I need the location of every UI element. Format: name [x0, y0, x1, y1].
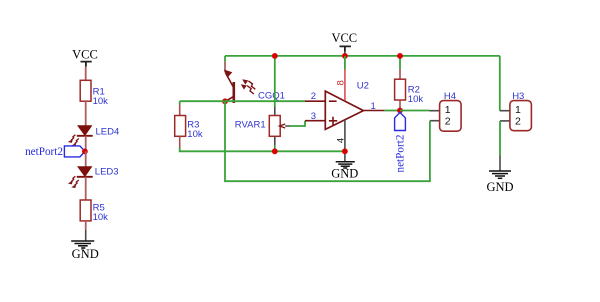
wire top rail to H3 pin1: [499, 56, 501, 111]
net port netPort2 (down): [394, 113, 406, 173]
svg-text:H4: H4: [444, 91, 456, 102]
svg-text:GND: GND: [331, 167, 358, 181]
wire RVAR1 bottom: [274, 146, 276, 152]
svg-text:2: 2: [311, 91, 316, 102]
node output junction: [397, 108, 403, 114]
resistor R1: [80, 80, 108, 107]
pin 4 ground stub: [344, 120, 346, 162]
svg-text:RVAR1: RVAR1: [235, 120, 266, 131]
node VCC junction: [342, 53, 348, 59]
wire top rail: [225, 55, 500, 57]
node emitter junction: [222, 98, 228, 104]
ground (right): [486, 156, 513, 194]
wire R3 left drop: [179, 101, 181, 104]
wire R3 to bottom-mid rail: [180, 148, 345, 152]
pin 8 power stub: [344, 56, 346, 70]
header H4: [430, 91, 462, 131]
wire LED4 to junction: [85, 136, 87, 152]
transistor CGQ1 (photo): [224, 62, 285, 104]
svg-text:CGQ1: CGQ1: [258, 90, 285, 101]
wire RVAR1 top drop: [274, 56, 276, 107]
op-amp U1 pin stubs: [305, 100, 325, 102]
svg-text:GND: GND: [72, 247, 99, 261]
node RVAR1 top junction: [272, 53, 278, 59]
op-amp U2: [311, 80, 376, 143]
svg-text:3: 3: [311, 111, 316, 122]
node junction LED4/LED3: [82, 149, 88, 155]
header H3: [500, 91, 532, 131]
potentiometer RVAR1: [235, 107, 290, 146]
VCC (left): [72, 48, 98, 67]
svg-text:10k: 10k: [93, 212, 109, 223]
wire H3 pin2 to ground: [499, 121, 501, 156]
svg-text:U2: U2: [357, 81, 369, 92]
wire pin2 net horizontal: [180, 100, 305, 102]
svg-text:VCC: VCC: [331, 31, 357, 45]
wire junction to LED3: [85, 151, 87, 167]
wire R1 to LED4: [85, 101, 87, 126]
wire output to H4 pin1: [400, 110, 430, 112]
svg-text:LED4: LED4: [96, 126, 120, 137]
node R2 top junction: [397, 53, 403, 59]
svg-text:2: 2: [445, 116, 451, 128]
net port netPort2 (left): [25, 146, 85, 158]
svg-text:2: 2: [515, 116, 521, 128]
wire VCC to R1: [85, 67, 87, 81]
svg-text:netPort2: netPort2: [25, 146, 63, 158]
ground (left): [71, 230, 99, 261]
resistor R5: [80, 200, 108, 223]
LED LED3: [68, 167, 119, 189]
node RVAR1 bottom junction: [272, 148, 278, 154]
resistor R2: [395, 69, 424, 111]
svg-text:VCC: VCC: [72, 48, 98, 62]
svg-text:10k: 10k: [93, 96, 109, 107]
wire R2 top drop: [399, 56, 401, 69]
VCC (right): [331, 31, 357, 56]
svg-text:GND: GND: [486, 180, 513, 194]
wire collector drop: [224, 56, 226, 62]
svg-text:H3: H3: [512, 91, 524, 102]
ground (middle): [331, 162, 358, 181]
svg-text:LED3: LED3: [95, 167, 119, 178]
svg-text:1: 1: [445, 104, 451, 116]
node pin4 junction: [342, 148, 348, 154]
svg-text:netPort2: netPort2: [394, 135, 406, 173]
svg-text:10k: 10k: [408, 94, 424, 105]
LED LED4: [68, 126, 119, 147]
wire R5 to GND: [85, 221, 87, 230]
svg-text:10k: 10k: [187, 129, 203, 140]
wire H4 pin2 to bottom rail: [225, 101, 430, 181]
wire output pin1: [363, 110, 384, 112]
svg-text:1: 1: [515, 104, 521, 116]
wire LED3 to R5: [85, 177, 87, 200]
wire wiper to pin3: [290, 121, 305, 126]
resistor R3: [175, 105, 203, 148]
